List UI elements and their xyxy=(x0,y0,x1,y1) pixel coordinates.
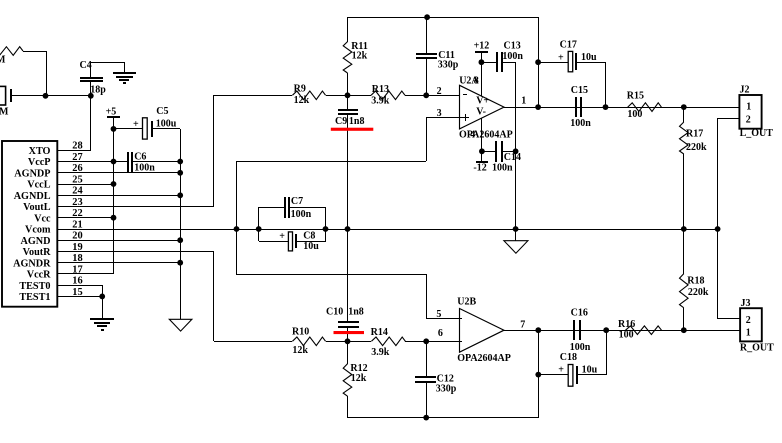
wire TEST0/TEST1 xyxy=(102,285,104,296)
svg-text:R13: R13 xyxy=(372,84,389,95)
op-amp U2A OPA2604AP xyxy=(460,85,505,129)
svg-text:10u: 10u xyxy=(303,241,319,252)
svg-text:1: 1 xyxy=(746,102,751,113)
svg-text:2: 2 xyxy=(437,86,442,97)
capacitor C7 100n xyxy=(258,207,260,241)
resistor R? 1M (partially off-canvas) xyxy=(0,47,23,56)
wire feedback top xyxy=(348,17,538,19)
svg-text:VccR: VccR xyxy=(27,270,51,281)
wire J2 pin2 to J3 pin2 (Vcom) xyxy=(718,118,739,120)
wire +5 bus xyxy=(113,117,115,274)
svg-text:1M: 1M xyxy=(0,54,6,65)
svg-text:C4: C4 xyxy=(80,60,92,71)
svg-text:AGNDP: AGNDP xyxy=(14,168,50,179)
svg-text:7: 7 xyxy=(520,320,525,331)
svg-text:15: 15 xyxy=(72,287,82,298)
svg-text:12k: 12k xyxy=(294,95,310,106)
svg-text:C18: C18 xyxy=(560,352,577,363)
minus mark U2A xyxy=(463,94,467,96)
svg-text:28: 28 xyxy=(72,141,82,152)
svg-text:XTO: XTO xyxy=(29,146,51,157)
wire gnd bus xyxy=(180,129,182,319)
svg-text:1: 1 xyxy=(746,327,751,338)
svg-text:12k: 12k xyxy=(352,51,368,62)
svg-text:L_OUT: L_OUT xyxy=(740,128,774,139)
svg-text:26: 26 xyxy=(72,163,82,174)
capacitor C17 10u xyxy=(535,59,541,65)
wire xyxy=(46,95,91,97)
svg-text:R14: R14 xyxy=(371,327,388,338)
capacitor C18 10u xyxy=(535,372,541,378)
svg-text:-12: -12 xyxy=(473,162,486,173)
svg-text:18p: 18p xyxy=(90,85,106,96)
node inverting input U2B xyxy=(423,338,429,344)
svg-text:24: 24 xyxy=(72,186,82,197)
svg-text:19: 19 xyxy=(72,242,82,253)
capacitor C8 10u xyxy=(259,241,288,243)
resistor R9 12k xyxy=(214,95,292,97)
svg-text:U2B: U2B xyxy=(457,296,476,307)
svg-text:22: 22 xyxy=(72,208,82,219)
svg-text:330p: 330p xyxy=(436,384,457,395)
svg-text:16: 16 xyxy=(72,276,82,287)
wire output U2B xyxy=(504,330,740,332)
svg-text:12k: 12k xyxy=(292,345,308,356)
resistor R10 12k xyxy=(214,341,292,343)
svg-text:10u: 10u xyxy=(581,52,597,63)
svg-text:R9: R9 xyxy=(294,84,306,95)
svg-text:+: + xyxy=(558,52,564,63)
wire feedback bottom xyxy=(348,417,538,419)
ground (analog, triangle) xyxy=(169,319,192,331)
capacitor C10 1n8 xyxy=(347,229,349,322)
wire VoutR down to R10 xyxy=(213,252,215,341)
resistor R12 12k xyxy=(347,341,349,364)
svg-text:6: 6 xyxy=(438,328,443,339)
capacitor C15 100n xyxy=(575,97,577,117)
svg-text:VccL: VccL xyxy=(27,180,50,191)
svg-text:C9: C9 xyxy=(335,116,347,127)
plus mark U2B pin5 xyxy=(459,315,461,322)
svg-text:C13: C13 xyxy=(504,40,521,51)
svg-text:C8: C8 xyxy=(303,230,315,241)
wire -12 column to Vcom gnd xyxy=(515,62,517,229)
wire VoutL up to R9 xyxy=(213,95,215,206)
node inverting input U2A xyxy=(423,92,429,98)
crystal Y? 16M (partially off-canvas) xyxy=(0,86,6,105)
svg-text:C6: C6 xyxy=(134,152,146,163)
svg-text:V+: V+ xyxy=(476,96,489,107)
svg-text:R16: R16 xyxy=(618,319,635,330)
svg-text:C10: C10 xyxy=(326,306,343,317)
op-amp U2B OPA2604AP xyxy=(460,309,505,353)
capacitor C5 100u xyxy=(114,128,142,130)
svg-text:10u: 10u xyxy=(582,365,598,376)
svg-text:2: 2 xyxy=(746,114,751,125)
svg-text:AGND: AGND xyxy=(21,236,51,247)
node XTAL junction xyxy=(43,93,49,99)
svg-text:TEST1: TEST1 xyxy=(19,292,50,303)
capacitor C4 18p xyxy=(80,77,103,79)
svg-text:16M: 16M xyxy=(0,107,9,118)
svg-text:2: 2 xyxy=(746,315,751,326)
svg-text:100n: 100n xyxy=(134,162,155,173)
plus mark U2A xyxy=(462,117,469,119)
wire output U2A xyxy=(504,107,739,109)
capacitor C12 330p xyxy=(426,341,428,377)
svg-text:330p: 330p xyxy=(438,60,459,71)
svg-text:5: 5 xyxy=(436,309,441,320)
svg-text:21: 21 xyxy=(72,219,82,230)
svg-text:4: 4 xyxy=(470,129,475,140)
svg-text:100n: 100n xyxy=(502,51,523,62)
svg-text:R10: R10 xyxy=(292,327,309,338)
svg-text:C7: C7 xyxy=(291,196,303,207)
svg-text:100n: 100n xyxy=(570,118,591,129)
wire V+ pin xyxy=(479,59,485,65)
svg-text:+5: +5 xyxy=(106,106,117,117)
svg-text:220k: 220k xyxy=(686,142,707,153)
svg-text:OPA2604AP: OPA2604AP xyxy=(459,129,513,140)
resistor R11 12k xyxy=(347,17,349,42)
IC U1 DAC box xyxy=(2,141,57,307)
svg-text:C16: C16 xyxy=(571,308,588,319)
svg-text:100n: 100n xyxy=(291,209,312,220)
ground (TEST) xyxy=(90,318,114,320)
svg-text:Vcc: Vcc xyxy=(34,213,51,224)
capacitor C13 100n xyxy=(481,62,497,64)
node feedback/output xyxy=(535,104,541,110)
svg-text:OPA2604AP: OPA2604AP xyxy=(457,353,511,364)
svg-text:20: 20 xyxy=(72,231,82,242)
svg-text:+: + xyxy=(133,119,139,130)
svg-text:100n: 100n xyxy=(570,342,591,353)
resistor R15 100 xyxy=(628,103,662,112)
svg-text:18: 18 xyxy=(72,253,82,264)
resistor R14 3.9k xyxy=(348,341,371,343)
red highlight mark under C10 xyxy=(334,331,365,334)
svg-text:100u: 100u xyxy=(156,119,177,130)
svg-text:VoutL: VoutL xyxy=(23,202,51,213)
ground (C4) xyxy=(113,72,136,74)
svg-text:VoutR: VoutR xyxy=(23,247,52,258)
capacitor C11 330p xyxy=(426,17,428,54)
node R10/R12/R14/C10 xyxy=(345,338,351,344)
red highlight mark under C9 xyxy=(331,128,374,131)
capacitor C16 100n xyxy=(573,320,575,340)
svg-text:+12: +12 xyxy=(474,40,490,51)
svg-text:C17: C17 xyxy=(560,40,577,51)
svg-text:TEST0: TEST0 xyxy=(19,281,50,292)
svg-text:3.9k: 3.9k xyxy=(371,95,390,106)
svg-text:8: 8 xyxy=(474,76,479,87)
svg-text:220k: 220k xyxy=(688,287,709,298)
svg-text:AGNDR: AGNDR xyxy=(13,258,51,269)
capacitor C9 1n8 xyxy=(347,95,349,110)
wire Vcom branch to op-amp + inputs xyxy=(236,161,238,274)
svg-text:J2: J2 xyxy=(740,84,750,95)
resistor R18 220k xyxy=(683,229,685,274)
svg-text:100n: 100n xyxy=(492,162,513,173)
svg-text:25: 25 xyxy=(72,174,82,185)
svg-text:1n8: 1n8 xyxy=(349,116,365,127)
node R9/R11/R13/C9 xyxy=(345,92,351,98)
svg-text:100: 100 xyxy=(619,329,634,340)
wire V- pin xyxy=(481,118,483,151)
svg-text:23: 23 xyxy=(72,197,82,208)
svg-text:AGNDL: AGNDL xyxy=(14,191,51,202)
svg-text:3.9k: 3.9k xyxy=(371,347,390,358)
power -12 xyxy=(481,151,483,162)
wire xyxy=(46,51,48,96)
svg-text:+: + xyxy=(279,231,285,242)
ground (Vcom triangle) xyxy=(513,226,519,232)
svg-text:R_OUT: R_OUT xyxy=(740,342,774,353)
svg-text:100: 100 xyxy=(627,109,642,120)
resistor R13 3.9k xyxy=(348,95,371,97)
svg-text:C5: C5 xyxy=(156,106,168,117)
resistor R16 100 xyxy=(626,326,662,335)
svg-text:1: 1 xyxy=(521,96,526,107)
svg-text:R17: R17 xyxy=(686,128,703,139)
svg-text:17: 17 xyxy=(72,264,82,275)
svg-text:C15: C15 xyxy=(571,85,588,96)
svg-text:VccP: VccP xyxy=(28,157,51,168)
svg-text:1n8: 1n8 xyxy=(348,307,364,318)
svg-text:+: + xyxy=(558,365,564,376)
plus mark U2B pin6 xyxy=(459,338,461,344)
svg-text:27: 27 xyxy=(72,152,82,163)
capacitor C6 100n xyxy=(127,152,129,172)
wire Vcom rail xyxy=(57,229,718,231)
svg-text:12k: 12k xyxy=(351,373,367,384)
svg-text:Vcom: Vcom xyxy=(25,225,51,236)
wire pin28 to crystal node xyxy=(90,96,92,150)
svg-text:R15: R15 xyxy=(627,91,644,102)
svg-text:V-: V- xyxy=(476,107,486,118)
resistor R17 220k xyxy=(683,107,685,122)
svg-text:3: 3 xyxy=(437,108,442,119)
svg-text:R18: R18 xyxy=(687,276,704,287)
capacitor C14 100n xyxy=(482,151,496,153)
